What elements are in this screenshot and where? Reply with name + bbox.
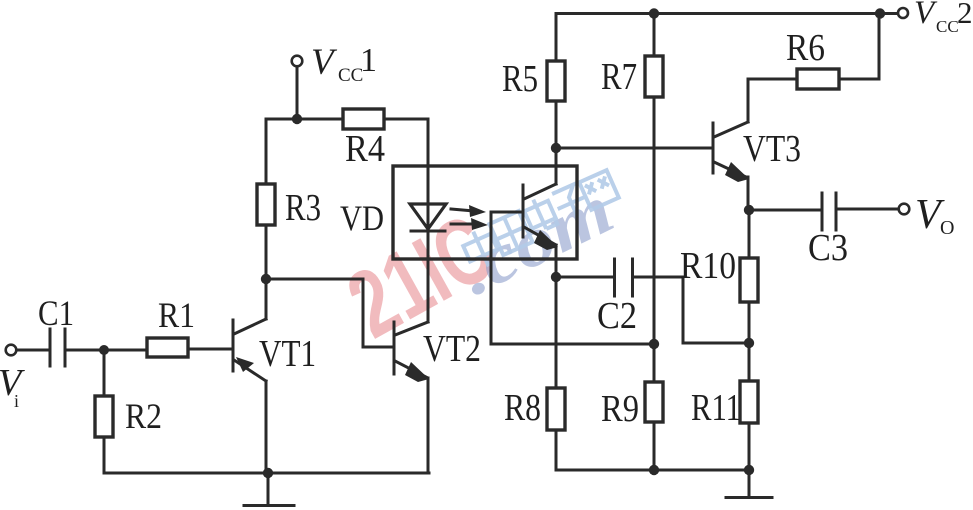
node R7 top junction [649,8,659,18]
svg-text:R7: R7 [601,56,637,98]
wire R2 top [103,350,106,396]
wire VT2 base horizontal [363,346,393,349]
svg-text:R6: R6 [786,27,825,69]
svg-text:CC: CC [936,17,959,36]
node R11 bottom junction [744,465,754,475]
capacitor C3 [822,193,836,230]
char zhong [460,226,503,273]
svg-text:1: 1 [360,42,377,79]
wire bottom left rail [104,472,429,475]
wire R5 top [555,14,558,62]
watermark chinese chars [460,170,619,272]
light arrow 1 [451,205,486,217]
wire R6 up to rail [878,14,881,80]
svg-text:C2: C2 [597,295,637,337]
ground left [244,473,294,506]
svg-text:VT1: VT1 [259,333,316,375]
node A collector junction [261,274,271,284]
node VT2 collector from node A [266,278,363,281]
resistor R8 [547,388,565,430]
wire Vi to C1 [17,349,48,352]
node R9 bottom junction [649,465,659,475]
svg-text:R10: R10 [680,245,736,287]
wire R8 bottom [555,430,558,470]
wire R3 top [265,119,268,184]
node Vcc1 junction [292,114,302,124]
transistor VT2 [394,322,429,382]
wire C2 to R10 node [683,342,749,345]
resistor R6 [797,69,839,89]
wire VT3 emitter down [747,177,750,210]
resistor R3 [257,184,275,225]
wire C2 drop [682,277,685,343]
wire photo base drop [490,212,493,344]
resistor R10 [740,258,758,302]
wire R9 bottom [653,422,656,470]
LED diode symbol [410,204,446,231]
svg-text:R5: R5 [502,58,538,100]
resistor R9 [645,382,663,422]
wire VT1 collector up [265,279,268,319]
LED vertical wire [427,119,430,322]
node Vcc2 junction [875,8,885,18]
char wang [579,170,619,210]
wire VT3 collector up [747,79,750,122]
svg-text:R9: R9 [601,388,639,430]
wire top rail [556,12,898,15]
wire to R6 [748,78,797,81]
wire R5 bottom [555,101,558,148]
transistor VT3 [713,122,749,182]
wire Vcc1 stem [296,67,299,119]
terminal Vi [6,345,17,356]
svg-text:2: 2 [957,0,973,30]
node R5 base junction [551,143,561,153]
svg-text:VD: VD [340,198,384,238]
wire photo base left [491,211,523,214]
svg-text:R11: R11 [691,387,741,429]
svg-text:O: O [940,217,954,239]
transistor VT1 [233,319,266,381]
ground right [726,470,772,498]
wire top left horizontal [266,118,343,121]
svg-text:R4: R4 [345,128,385,170]
capacitor C2 [615,259,633,296]
node opto emitter junction [551,272,561,282]
watermark 21IC [331,194,510,358]
char dian [521,194,558,234]
svg-text:R8: R8 [504,387,541,429]
node VT3 emitter junction [744,205,754,215]
wire base horizontal to R9 [491,343,654,346]
svg-text:VT2: VT2 [423,328,481,370]
optocoupler box VD [393,166,577,259]
svg-text:i: i [14,391,19,411]
svg-text:VT3: VT3 [743,128,801,170]
resistor R11 [740,381,758,423]
wire photo collector up [555,148,558,184]
node R10 R11 junction [744,338,754,348]
wire VT1 emitter down [265,381,268,473]
wire R7 top [653,14,656,57]
char zi [551,182,591,223]
watermark .com [447,171,625,310]
terminal Vcc2 [898,8,908,18]
wire to C3 [749,209,820,212]
wire bottom right rail [556,469,749,472]
wire R10 bottom [748,302,751,381]
resistor R4 [343,109,384,129]
wire R6 right [839,78,879,81]
svg-text:C3: C3 [808,227,848,269]
svg-text:R2: R2 [125,396,162,436]
wire C3 to Vo [838,208,898,211]
svg-text:C1: C1 [38,293,74,333]
wire C2 right [634,276,683,279]
wire R7 down to R9 [653,97,656,382]
wire R11 bottom [748,423,751,470]
wire VT2 base drop [362,279,365,347]
svg-text:R3: R3 [285,187,321,229]
char guo [489,211,532,255]
light arrow 2 [451,218,488,230]
wire R3 bottom [265,225,268,279]
wire VT2 emitter down [427,378,430,473]
wire R4 to LED corner [384,118,428,121]
svg-text:R1: R1 [158,295,195,335]
phototransistor [523,184,558,250]
capacitor C1 [50,329,65,366]
node ground left junction [263,468,273,478]
resistor R1 [147,338,188,357]
terminal Vo [899,204,910,215]
wire R1 to VT1 base [188,348,231,351]
wire photo emitter down [555,245,558,277]
terminal Vcc1 [292,56,303,67]
resistor R5 [547,61,565,101]
wire R10 top [748,210,751,258]
wire to C2 [556,276,613,279]
node R9 base junction [649,339,659,349]
wire C1 to node [67,349,146,352]
wire VT3 base [556,147,712,150]
resistor R7 [645,56,663,97]
node input junction [99,345,109,355]
resistor R2 [95,396,113,437]
wire R8 top [555,277,558,388]
wire R2 bottom [103,437,106,473]
